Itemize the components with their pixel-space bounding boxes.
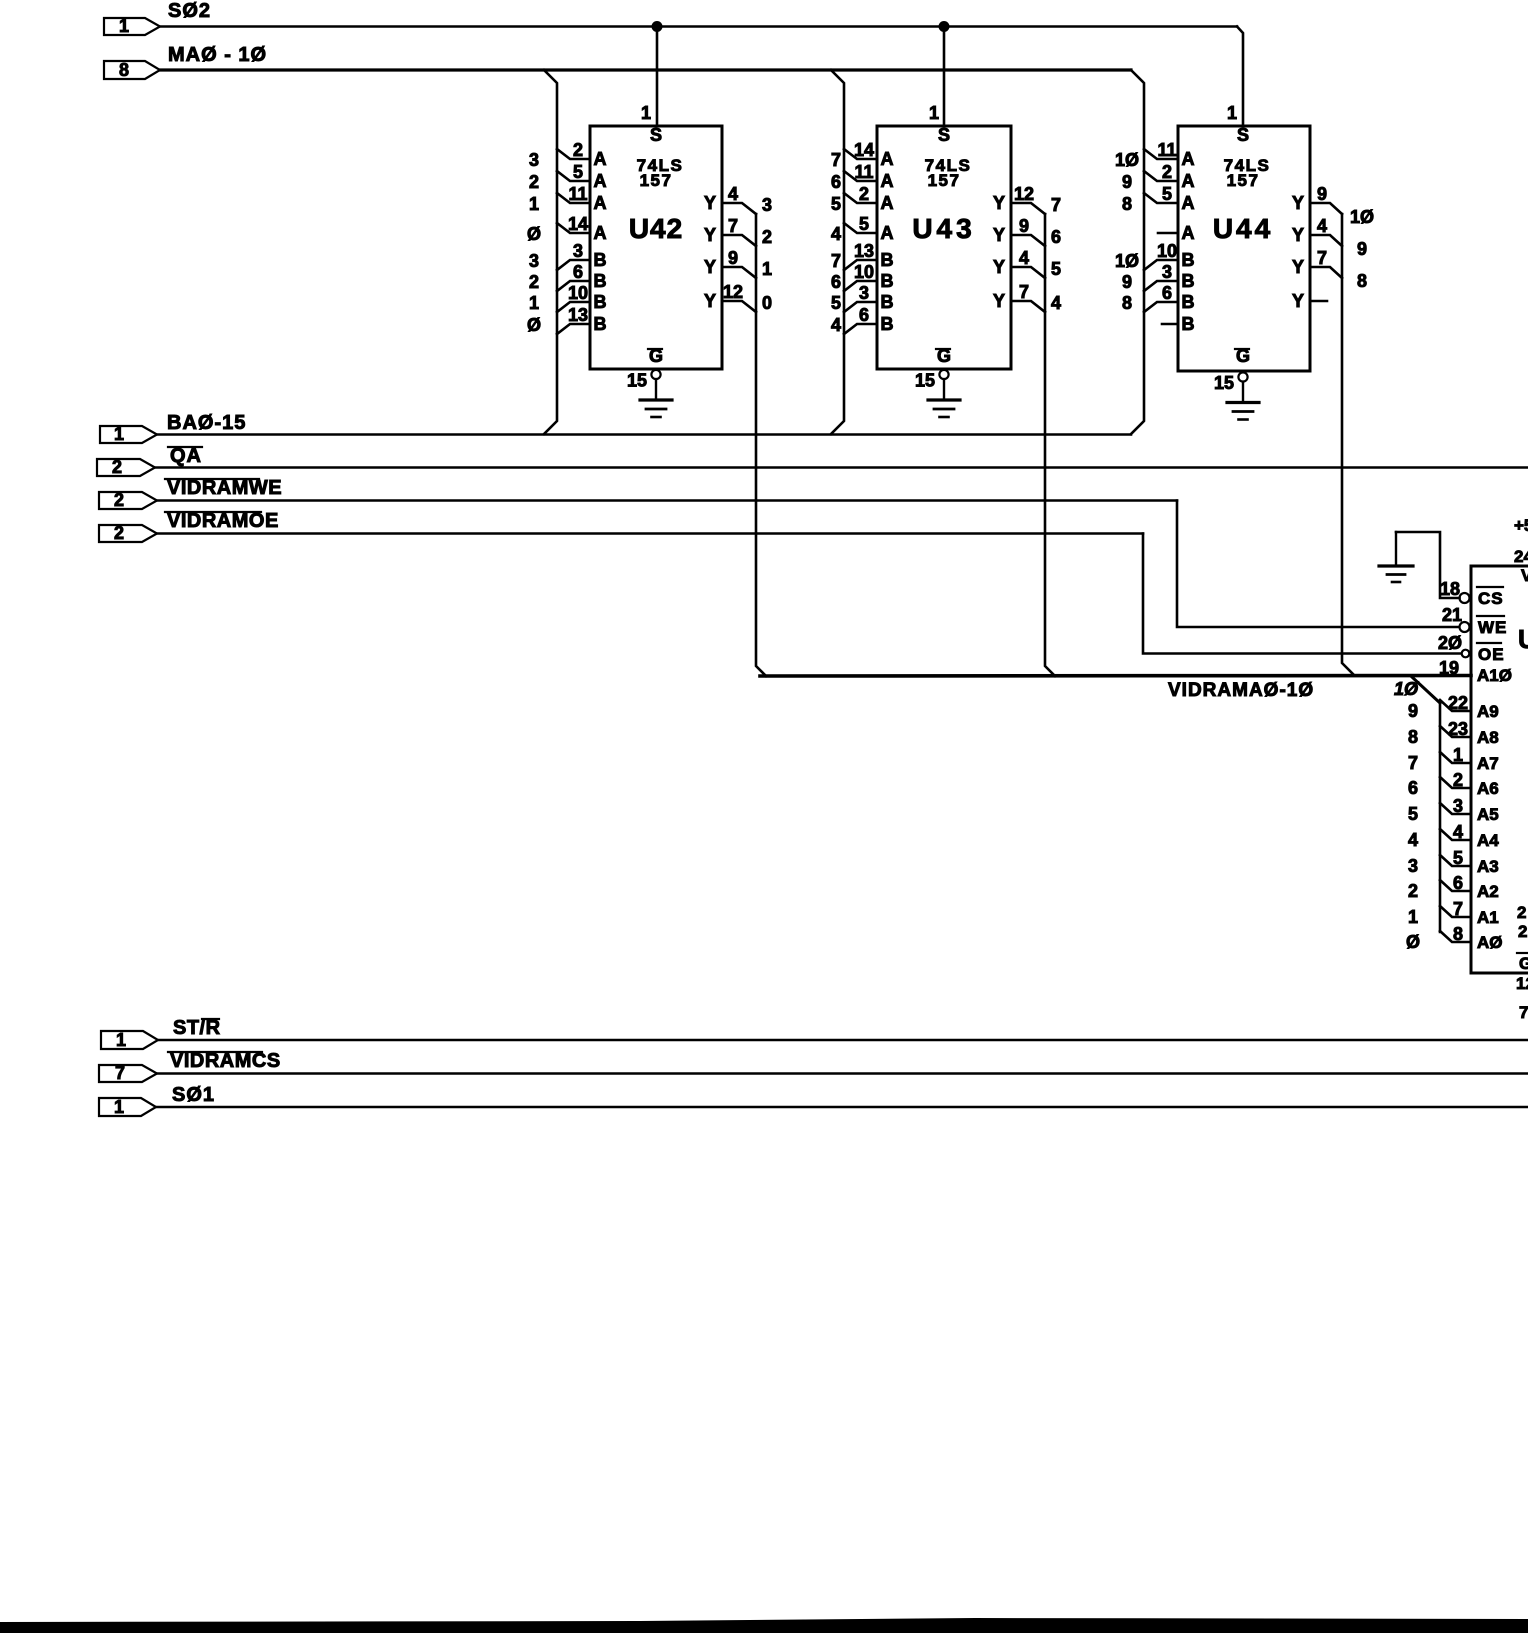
svg-text:21: 21 xyxy=(1442,605,1462,625)
bus BA0-15 horizontal xyxy=(157,433,1131,436)
wire net SO1 xyxy=(156,1106,1528,1109)
U44 Y output bus vertical xyxy=(1342,214,1354,675)
svg-text:QA: QA xyxy=(170,445,202,467)
svg-text:9: 9 xyxy=(1357,239,1367,259)
svg-text:A: A xyxy=(1182,223,1195,243)
svg-text:4: 4 xyxy=(728,184,738,204)
svg-text:4: 4 xyxy=(831,315,841,335)
bus VIDRAMA0-10 diagonal to address column, bit 10 label xyxy=(1394,677,1440,703)
wire VIDRAMOE route to RAM OE pin 20 xyxy=(1143,534,1461,654)
svg-text:B: B xyxy=(1182,250,1195,270)
svg-text:Y: Y xyxy=(1292,193,1304,213)
svg-text:2: 2 xyxy=(529,172,539,192)
svg-text:A2: A2 xyxy=(1477,882,1499,901)
svg-text:1: 1 xyxy=(1227,103,1237,123)
wire net ST/R xyxy=(158,1039,1528,1042)
wire net QA xyxy=(155,466,1528,469)
svg-text:13: 13 xyxy=(568,305,588,325)
svg-text:6: 6 xyxy=(1408,778,1418,798)
svg-text:1: 1 xyxy=(114,424,124,444)
RAM pin 6 A2 tap xyxy=(1408,873,1499,901)
U42 pin 15 G strobe and ground xyxy=(627,346,672,417)
RAM U4x body (cut off at page edge) xyxy=(1471,566,1528,973)
U44 A input taps pins 11/2/5 xyxy=(1115,140,1195,243)
RAM right-edge cut texts (U designator, pins 2x, G, 12, 7) xyxy=(1516,624,1528,1022)
svg-text:24: 24 xyxy=(1514,547,1528,566)
svg-text:B: B xyxy=(594,314,607,334)
bus MA/BA vertical feed U44 xyxy=(1131,70,1144,434)
svg-text:B: B xyxy=(881,292,894,312)
bus entry flag MA0-10 (sheet 8) xyxy=(104,44,267,80)
svg-text:5: 5 xyxy=(1051,259,1061,279)
ground symbol at RAM CS xyxy=(1379,532,1413,582)
svg-text:5: 5 xyxy=(1162,184,1172,204)
bus entry flag VIDRAMCS (sheet 7) xyxy=(99,1050,281,1083)
svg-text:2: 2 xyxy=(112,457,122,477)
bus entry flag SO1 (sheet 1) xyxy=(99,1084,215,1117)
svg-text:1: 1 xyxy=(116,1030,126,1050)
U42 B input taps pins 3/6/10/13 xyxy=(527,241,607,335)
svg-text:U42: U42 xyxy=(629,213,683,244)
RAM pin 22 A9 tap xyxy=(1408,693,1499,721)
bus entry flag ST/R (sheet 1) xyxy=(101,1017,221,1050)
svg-text:6: 6 xyxy=(831,272,841,292)
svg-text:A8: A8 xyxy=(1477,728,1499,747)
svg-text:3: 3 xyxy=(1408,856,1418,876)
svg-text:B: B xyxy=(881,271,894,291)
svg-text:6: 6 xyxy=(573,262,583,282)
svg-text:VIDRAMCS: VIDRAMCS xyxy=(170,1050,281,1072)
svg-text:CS: CS xyxy=(1478,589,1504,608)
svg-text:U43: U43 xyxy=(912,213,975,244)
svg-text:V: V xyxy=(1521,566,1528,585)
svg-text:1: 1 xyxy=(529,293,539,313)
svg-text:6: 6 xyxy=(1051,227,1061,247)
svg-text:3: 3 xyxy=(1453,796,1463,816)
wire net VIDRAMOE xyxy=(157,532,1143,535)
svg-text:6: 6 xyxy=(1162,283,1172,303)
svg-text:1: 1 xyxy=(641,103,651,123)
svg-text:9: 9 xyxy=(1408,701,1418,721)
svg-text:+5: +5 xyxy=(1514,516,1528,535)
svg-text:157: 157 xyxy=(928,171,961,190)
svg-text:A: A xyxy=(1182,193,1195,213)
svg-text:A6: A6 xyxy=(1477,779,1499,798)
svg-text:Y: Y xyxy=(1292,291,1304,311)
svg-text:SØ1: SØ1 xyxy=(172,1084,215,1106)
svg-text:Y: Y xyxy=(704,225,716,245)
svg-text:8: 8 xyxy=(119,60,129,80)
svg-text:1: 1 xyxy=(114,1097,124,1117)
svg-text:1: 1 xyxy=(119,16,129,36)
svg-text:Y: Y xyxy=(993,193,1005,213)
svg-text:4: 4 xyxy=(1051,293,1061,313)
RAM pin 3 A5 tap xyxy=(1408,796,1499,824)
RAM pin 18 CS bubble and label xyxy=(1460,587,1504,608)
svg-text:MAØ - 1Ø: MAØ - 1Ø xyxy=(168,44,267,66)
svg-text:2: 2 xyxy=(1408,881,1418,901)
svg-text:10: 10 xyxy=(854,262,874,282)
svg-text:13: 13 xyxy=(854,241,874,261)
svg-text:2: 2 xyxy=(529,272,539,292)
svg-text:7: 7 xyxy=(115,1063,125,1083)
bus VIDRAMA0-10 horizontal xyxy=(760,676,1471,702)
svg-text:S: S xyxy=(938,125,950,145)
mux U43 74LS157 xyxy=(877,125,1011,369)
svg-text:4: 4 xyxy=(1317,216,1327,236)
svg-text:2: 2 xyxy=(1517,903,1526,922)
RAM pin 1 A7 tap xyxy=(1408,745,1499,773)
RAM pin 8 A&#216; tap xyxy=(1406,924,1503,952)
svg-text:22: 22 xyxy=(1448,693,1468,713)
bus MA0-10 horizontal xyxy=(160,68,1131,71)
svg-text:4: 4 xyxy=(1408,830,1418,850)
RAM pin 21 WE bubble and label xyxy=(1442,605,1507,637)
svg-text:B: B xyxy=(1182,271,1195,291)
svg-text:A: A xyxy=(594,193,607,213)
svg-text:B: B xyxy=(594,250,607,270)
wire ground to RAM CS pin 18 xyxy=(1396,532,1460,599)
svg-text:1Ø: 1Ø xyxy=(1115,251,1139,271)
svg-text:Y: Y xyxy=(993,225,1005,245)
RAM pin 4 A4 tap xyxy=(1408,822,1499,850)
svg-text:8: 8 xyxy=(1453,924,1463,944)
svg-text:3: 3 xyxy=(529,251,539,271)
svg-text:3: 3 xyxy=(1162,262,1172,282)
svg-text:19: 19 xyxy=(1439,658,1459,678)
RAM pin 23 A8 tap xyxy=(1408,719,1499,747)
bus entry flag BA0-15 (sheet 1) xyxy=(100,412,246,444)
svg-text:6: 6 xyxy=(1453,873,1463,893)
svg-text:15: 15 xyxy=(627,371,647,391)
svg-text:1: 1 xyxy=(529,194,539,214)
svg-text:7: 7 xyxy=(1051,195,1061,215)
svg-text:OE: OE xyxy=(1478,645,1505,664)
svg-text:Y: Y xyxy=(704,257,716,277)
svg-text:A: A xyxy=(881,149,894,169)
svg-text:2Ø: 2Ø xyxy=(1438,633,1462,653)
svg-text:A: A xyxy=(1182,149,1195,169)
U43 Y output bus vertical xyxy=(1045,214,1055,676)
svg-text:A7: A7 xyxy=(1477,754,1499,773)
svg-text:2: 2 xyxy=(114,523,124,543)
RAM pin 19 A10 xyxy=(1439,658,1512,685)
wire net VIDRAMCS xyxy=(157,1072,1528,1075)
svg-text:Ø: Ø xyxy=(527,224,541,244)
U42 Y output taps pins 4/7/9/12 xyxy=(704,184,772,313)
svg-text:12: 12 xyxy=(723,282,743,302)
svg-text:157: 157 xyxy=(640,171,673,190)
U43 Y output taps pins 12/9/4/7 xyxy=(993,184,1061,313)
svg-text:7: 7 xyxy=(1453,899,1463,919)
svg-text:U44: U44 xyxy=(1213,213,1273,244)
svg-text:B: B xyxy=(594,292,607,312)
svg-text:0: 0 xyxy=(762,293,772,313)
svg-text:WE: WE xyxy=(1478,618,1507,637)
svg-text:A3: A3 xyxy=(1477,857,1499,876)
svg-text:4: 4 xyxy=(1453,822,1463,842)
svg-text:3: 3 xyxy=(573,241,583,261)
mux U42 74LS157 xyxy=(590,125,722,369)
svg-text:A5: A5 xyxy=(1477,805,1499,824)
svg-text:A1Ø: A1Ø xyxy=(1477,666,1512,685)
svg-text:2: 2 xyxy=(573,140,583,160)
svg-text:B: B xyxy=(1182,292,1195,312)
svg-text:9: 9 xyxy=(1122,272,1132,292)
svg-text:AØ: AØ xyxy=(1477,933,1503,952)
RAM pin 2 A6 tap xyxy=(1408,770,1499,798)
wire U43 pin 1 S xyxy=(929,27,944,127)
svg-text:9: 9 xyxy=(1317,184,1327,204)
svg-text:3: 3 xyxy=(529,150,539,170)
svg-text:Ø: Ø xyxy=(1406,932,1420,952)
svg-text:A: A xyxy=(881,223,894,243)
U44 B input taps pins 10/3/6 xyxy=(1115,241,1195,334)
svg-text:VIDRAMWE: VIDRAMWE xyxy=(167,477,282,499)
bus entry flag QA (sheet 2) xyxy=(97,445,202,477)
page edge scan bar xyxy=(0,1618,1528,1633)
svg-text:A9: A9 xyxy=(1477,702,1499,721)
U43 B input taps pins 13/10/3/6 xyxy=(831,241,894,335)
svg-text:A: A xyxy=(881,171,894,191)
svg-text:8: 8 xyxy=(1357,271,1367,291)
svg-text:VIDRAMOE: VIDRAMOE xyxy=(167,510,279,532)
svg-text:157: 157 xyxy=(1227,171,1260,190)
svg-text:Y: Y xyxy=(704,193,716,213)
U42 Y output bus vertical xyxy=(756,214,766,676)
svg-text:U: U xyxy=(1518,624,1528,654)
RAM +5V / pin 24 VCC (cut) xyxy=(1514,516,1528,585)
svg-text:8: 8 xyxy=(1408,727,1418,747)
svg-text:A: A xyxy=(594,171,607,191)
svg-text:10: 10 xyxy=(1157,241,1177,261)
svg-text:5: 5 xyxy=(1408,804,1418,824)
svg-text:2: 2 xyxy=(859,184,869,204)
svg-text:G: G xyxy=(1519,954,1528,973)
svg-text:A4: A4 xyxy=(1477,831,1499,850)
svg-text:7: 7 xyxy=(831,251,841,271)
RAM pin 20 OE bubble and label xyxy=(1438,633,1505,664)
svg-text:S: S xyxy=(650,125,662,145)
svg-text:12: 12 xyxy=(1014,184,1034,204)
junction SO2 to U43 S xyxy=(939,21,950,32)
mux U44 74LS157 xyxy=(1178,125,1310,371)
wire VIDRAMWE route to RAM WE pin 21 xyxy=(1177,501,1459,628)
svg-text:2: 2 xyxy=(1518,922,1527,941)
svg-text:5: 5 xyxy=(831,293,841,313)
svg-text:5: 5 xyxy=(1453,848,1463,868)
svg-text:6: 6 xyxy=(859,305,869,325)
svg-text:A: A xyxy=(881,193,894,213)
svg-text:6: 6 xyxy=(831,172,841,192)
RAM pin 7 A1 tap xyxy=(1408,899,1499,927)
svg-text:A1: A1 xyxy=(1477,908,1499,927)
svg-text:B: B xyxy=(594,271,607,291)
svg-text:5: 5 xyxy=(859,214,869,234)
wire U44 pin 1 S xyxy=(1227,27,1243,127)
bus entry flag VIDRAMOE (sheet 2) xyxy=(99,510,279,543)
svg-text:BAØ-15: BAØ-15 xyxy=(167,412,246,434)
bus MA/BA vertical feed U43 xyxy=(831,70,844,434)
svg-text:Y: Y xyxy=(993,291,1005,311)
U43 pin 15 G strobe and ground xyxy=(915,346,960,417)
svg-text:1: 1 xyxy=(1408,907,1418,927)
svg-text:Ø: Ø xyxy=(527,315,541,335)
svg-text:A: A xyxy=(594,149,607,169)
svg-text:15: 15 xyxy=(915,371,935,391)
U43 A input taps pins 14/11/2/5 xyxy=(831,140,894,244)
svg-text:1Ø: 1Ø xyxy=(1115,150,1139,170)
svg-text:5: 5 xyxy=(831,194,841,214)
junction SO2 to U42 S xyxy=(652,21,663,32)
U44 pin 15 G strobe and ground xyxy=(1214,346,1259,420)
svg-text:23: 23 xyxy=(1448,719,1468,739)
svg-text:3: 3 xyxy=(762,195,772,215)
svg-text:B: B xyxy=(881,250,894,270)
svg-text:A: A xyxy=(594,223,607,243)
svg-text:9: 9 xyxy=(1122,172,1132,192)
svg-text:A: A xyxy=(1182,171,1195,191)
svg-text:1: 1 xyxy=(1453,745,1463,765)
svg-text:2: 2 xyxy=(114,490,124,510)
bus MA/BA vertical feed U42 xyxy=(544,70,557,434)
svg-text:Y: Y xyxy=(993,257,1005,277)
svg-text:18: 18 xyxy=(1440,579,1460,599)
RAM pin 5 A3 tap xyxy=(1408,848,1499,876)
svg-text:Y: Y xyxy=(704,291,716,311)
bus entry flag SO2 (sheet 1) xyxy=(104,0,211,36)
svg-text:Y: Y xyxy=(1292,225,1304,245)
svg-text:8: 8 xyxy=(1122,194,1132,214)
svg-text:S: S xyxy=(1237,125,1249,145)
svg-text:7: 7 xyxy=(831,150,841,170)
svg-text:4: 4 xyxy=(831,224,841,244)
wire U42 pin 1 S xyxy=(641,27,657,127)
svg-text:12: 12 xyxy=(1516,974,1528,993)
svg-text:7: 7 xyxy=(1317,248,1327,268)
svg-text:4: 4 xyxy=(1019,248,1029,268)
svg-text:1: 1 xyxy=(929,103,939,123)
svg-text:3: 3 xyxy=(859,283,869,303)
svg-text:11: 11 xyxy=(568,184,587,204)
svg-text:10: 10 xyxy=(568,283,588,303)
bus address column vertical A9..A0 xyxy=(1439,703,1442,932)
svg-text:5: 5 xyxy=(573,162,583,182)
svg-text:2: 2 xyxy=(1162,162,1172,182)
svg-text:15: 15 xyxy=(1214,373,1234,393)
svg-text:11: 11 xyxy=(1157,140,1176,160)
U42 A input taps pins 2/5/11/14 xyxy=(527,140,607,244)
svg-text:11: 11 xyxy=(854,162,873,182)
svg-text:7: 7 xyxy=(1519,1003,1528,1022)
wire net VIDRAMWE xyxy=(157,499,1177,502)
bus entry flag VIDRAMWE (sheet 2) xyxy=(99,477,282,510)
svg-text:1Ø: 1Ø xyxy=(1394,679,1419,699)
svg-text:7: 7 xyxy=(1408,753,1418,773)
svg-text:ST/R: ST/R xyxy=(173,1017,221,1039)
svg-text:9: 9 xyxy=(1019,216,1029,236)
svg-text:1: 1 xyxy=(762,259,772,279)
svg-text:1Ø: 1Ø xyxy=(1350,207,1374,227)
svg-text:7: 7 xyxy=(1019,282,1029,302)
svg-text:Y: Y xyxy=(1292,257,1304,277)
svg-text:B: B xyxy=(881,314,894,334)
U44 Y output taps pins 9/4/7 xyxy=(1292,184,1374,311)
svg-text:2: 2 xyxy=(1453,770,1463,790)
svg-text:14: 14 xyxy=(854,140,874,160)
svg-text:SØ2: SØ2 xyxy=(168,0,211,22)
svg-text:7: 7 xyxy=(728,216,738,236)
svg-text:VIDRAMAØ-1Ø: VIDRAMAØ-1Ø xyxy=(1168,680,1314,701)
svg-text:B: B xyxy=(1182,314,1195,334)
svg-text:14: 14 xyxy=(568,214,588,234)
wire net SO2 horizontal xyxy=(160,25,1237,28)
svg-text:2: 2 xyxy=(762,227,772,247)
svg-text:8: 8 xyxy=(1122,293,1132,313)
svg-text:9: 9 xyxy=(728,248,738,268)
